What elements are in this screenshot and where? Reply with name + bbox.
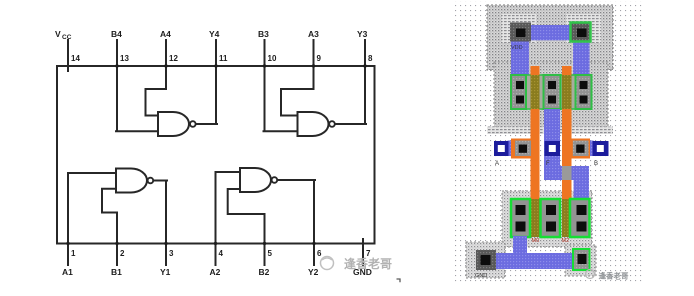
vdd contact surround right bbox=[566, 14, 601, 43]
metal1 gnd drop bbox=[513, 236, 527, 254]
watermark logo and text (right) bbox=[586, 270, 595, 279]
svg-text:A4: A4 bbox=[160, 29, 171, 39]
pin 3 Y1 output wire bbox=[153, 181, 167, 266]
svg-text:B: B bbox=[594, 161, 598, 167]
metal1 gnd rail bbox=[495, 253, 582, 269]
svg-text:B1: B1 bbox=[111, 267, 122, 277]
pin 10 B3 wire bbox=[264, 40, 298, 131]
metal1 vdd-left drop bbox=[511, 40, 529, 76]
svg-text:CC: CC bbox=[62, 34, 72, 41]
svg-text:13: 13 bbox=[120, 54, 129, 63]
svg-text:12: 12 bbox=[169, 54, 178, 63]
NAND gate U1b (bottom right) bbox=[240, 168, 271, 192]
pmos column mid bbox=[544, 75, 561, 109]
poly pad A bbox=[511, 139, 540, 159]
metal1 vdd-right drop bbox=[573, 40, 590, 76]
pin 13 B4 wire bbox=[116, 40, 158, 131]
svg-text:8: 8 bbox=[368, 54, 373, 63]
NAND gate U1a (bottom left) bbox=[116, 169, 147, 193]
svg-text:Y4: Y4 bbox=[209, 29, 220, 39]
pin 9 A3 wire bbox=[281, 40, 314, 116]
pin 7 GND stub bbox=[362, 239, 364, 265]
poly crossing tone over metal bbox=[562, 166, 572, 180]
nmos contacts bbox=[516, 205, 587, 232]
pin 2 B1 wire bbox=[102, 189, 117, 265]
IC body rectangle bbox=[57, 66, 375, 244]
svg-text:A: A bbox=[495, 161, 499, 167]
svg-text:11: 11 bbox=[219, 54, 228, 63]
pin 8 Y3 output wire bbox=[335, 40, 366, 124]
hatch band below pmos bbox=[487, 127, 613, 135]
svg-text:Y3: Y3 bbox=[357, 29, 368, 39]
substrate contact (green bordered) bbox=[573, 249, 590, 270]
svg-text:1: 1 bbox=[71, 249, 76, 258]
poly contact B bbox=[573, 141, 589, 157]
svg-text:2: 2 bbox=[120, 249, 125, 258]
nmos region stipple bbox=[502, 191, 592, 247]
pin 11 Y4 output wire bbox=[196, 40, 217, 124]
pmos column right bbox=[576, 75, 592, 109]
svg-text:5: 5 bbox=[268, 249, 273, 258]
svg-text:B4: B4 bbox=[111, 29, 122, 39]
vdd contact left bbox=[510, 23, 531, 42]
metal stub port B to poly contact bbox=[589, 141, 594, 157]
svg-text:A1: A1 bbox=[62, 267, 73, 277]
svg-text:逢香老哥: 逢香老哥 bbox=[344, 256, 392, 271]
stray corner mark bbox=[397, 279, 401, 282]
pin 6 Y2 output wire bbox=[277, 180, 315, 265]
svg-text:Y1: Y1 bbox=[160, 267, 171, 277]
port F pad bbox=[545, 141, 561, 156]
vdd contact right (green bordered) bbox=[571, 23, 591, 42]
grid background bbox=[455, 1, 643, 282]
svg-text:B2: B2 bbox=[259, 267, 270, 277]
vdd contact surround left bbox=[502, 14, 536, 43]
junction dots on package edges bbox=[66, 64, 366, 245]
svg-text:10: 10 bbox=[268, 54, 277, 63]
poly gate 1 (left) bbox=[531, 66, 540, 237]
pin 4 A2 wire bbox=[216, 172, 241, 265]
pin 12 A4 wire bbox=[146, 40, 167, 116]
metal stub port A to poly contact bbox=[508, 141, 517, 157]
svg-text:Y2: Y2 bbox=[308, 267, 319, 277]
svg-text:4: 4 bbox=[219, 249, 224, 258]
pin 14 VCC stub bbox=[67, 40, 69, 71]
n-well region bbox=[487, 5, 613, 70]
svg-text:M0: M0 bbox=[532, 238, 540, 244]
nmos diffusion column right bbox=[570, 199, 590, 237]
NAND gate U1c (top right) bbox=[298, 112, 329, 136]
schematic text labels bbox=[55, 29, 373, 277]
svg-text:A3: A3 bbox=[308, 29, 319, 39]
svg-text:A2: A2 bbox=[210, 267, 221, 277]
svg-text:逢香老哥: 逢香老哥 bbox=[599, 271, 629, 281]
metal1 output net F bbox=[544, 109, 589, 200]
port B pad bbox=[593, 141, 609, 156]
poly gate 2 (right) bbox=[562, 66, 572, 237]
pmos contacts bbox=[516, 81, 588, 104]
watermark logo and text (left) bbox=[321, 257, 334, 270]
substrate region stipple bottom right bbox=[565, 245, 596, 276]
port A pad bbox=[494, 141, 509, 156]
poly contact A bbox=[515, 141, 531, 157]
svg-text:VDD: VDD bbox=[511, 45, 523, 51]
pmos column left bbox=[511, 75, 526, 109]
pin 5 B2 wire bbox=[228, 189, 265, 265]
svg-text:F: F bbox=[546, 161, 550, 167]
pmos region stipple bbox=[494, 62, 608, 127]
gnd contact bbox=[476, 250, 496, 270]
svg-text:GND: GND bbox=[475, 273, 487, 279]
pmos diffusion base bbox=[511, 75, 592, 109]
gnd region stipple bbox=[466, 242, 505, 278]
NAND gate U1d (top left) bbox=[158, 112, 189, 136]
metal1 VDD strap bbox=[519, 25, 581, 40]
svg-text:V: V bbox=[55, 29, 61, 39]
svg-text:B3: B3 bbox=[258, 29, 269, 39]
svg-text:3: 3 bbox=[169, 249, 174, 258]
svg-text:6: 6 bbox=[317, 249, 322, 258]
pin 1 A1 wire bbox=[68, 173, 116, 265]
svg-text:M2: M2 bbox=[562, 238, 570, 244]
poly pad B bbox=[563, 139, 591, 159]
svg-text:14: 14 bbox=[71, 54, 80, 63]
nmos diffusion column left bbox=[511, 199, 530, 237]
nmos diffusion column mid bbox=[541, 199, 561, 237]
svg-text:9: 9 bbox=[317, 54, 322, 63]
